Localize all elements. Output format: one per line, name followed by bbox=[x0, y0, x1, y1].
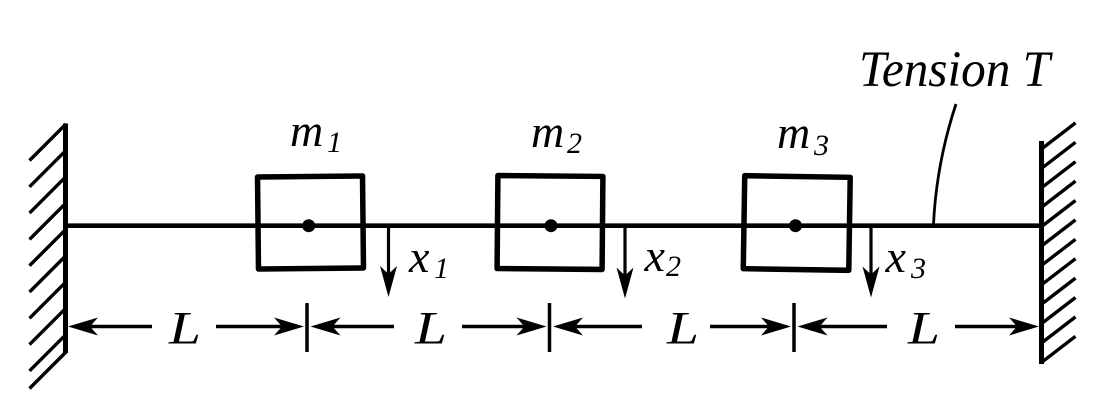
svg-text:Tension T: Tension T bbox=[859, 42, 1054, 98]
dim segment 4: arrow away from tick 3 bbox=[818, 325, 887, 329]
svg-text:L: L bbox=[414, 304, 447, 355]
dim segment 2: arrow to tick 2 bbox=[462, 325, 525, 329]
string under tension (wire) bbox=[64, 223, 1042, 228]
tick 1 bbox=[305, 303, 309, 352]
mass m1 center dot bbox=[302, 219, 315, 232]
mass m2 center dot bbox=[545, 219, 558, 232]
tick 2 bbox=[548, 303, 552, 352]
svg-text:L: L bbox=[168, 304, 201, 355]
svg-text:m: m bbox=[531, 106, 564, 157]
dimension line row bbox=[89, 303, 1018, 352]
arrowhead right at tick 1 bbox=[274, 318, 304, 336]
arrowhead left at tick 3 bbox=[798, 318, 828, 336]
mass m2 box bbox=[497, 176, 603, 270]
displacement arrow x2 bbox=[617, 227, 634, 299]
Tension T leader line bbox=[934, 104, 957, 224]
svg-text:3: 3 bbox=[910, 252, 926, 285]
svg-text:x: x bbox=[885, 231, 907, 282]
dim segment 2: arrow away from tick 1 bbox=[331, 325, 394, 329]
arrowhead right at tick 3 bbox=[761, 318, 791, 336]
svg-text:x: x bbox=[644, 230, 666, 281]
svg-text:L: L bbox=[666, 304, 699, 355]
svg-text:x: x bbox=[408, 231, 430, 282]
dim segment 1: arrow to tick 1 bbox=[216, 325, 283, 329]
svg-text:2: 2 bbox=[567, 127, 582, 160]
svg-text:1: 1 bbox=[327, 126, 342, 159]
left wall bbox=[30, 124, 67, 389]
svg-text:m: m bbox=[777, 107, 810, 158]
mass m3 center dot bbox=[789, 219, 802, 232]
dim segment 4: arrow to right wall bbox=[955, 325, 1018, 329]
right wall bbox=[1041, 123, 1076, 364]
displacement arrow x3 bbox=[863, 227, 880, 298]
svg-text:L: L bbox=[907, 304, 940, 355]
svg-text:m: m bbox=[290, 105, 323, 156]
svg-text:1: 1 bbox=[434, 252, 449, 285]
dim segment 3: arrow away from tick 2 bbox=[573, 325, 642, 329]
tick 3 bbox=[792, 303, 796, 352]
arrowhead left at tick 1 bbox=[311, 318, 341, 336]
dim segment 1: arrow to left wall bbox=[89, 325, 152, 329]
arrowhead right at tick 2 bbox=[517, 318, 547, 336]
displacement arrow x1 bbox=[380, 227, 397, 297]
arrowhead left at wall 1 bbox=[68, 318, 98, 336]
arrowhead left at tick 2 bbox=[553, 318, 583, 336]
mass m1 box bbox=[258, 176, 364, 269]
svg-text:3: 3 bbox=[813, 129, 829, 162]
dim segment 3: arrow to tick 3 bbox=[710, 325, 770, 329]
arrowhead right at right wall bbox=[1009, 318, 1039, 336]
svg-text:2: 2 bbox=[666, 250, 681, 283]
mass m3 box bbox=[743, 176, 850, 271]
